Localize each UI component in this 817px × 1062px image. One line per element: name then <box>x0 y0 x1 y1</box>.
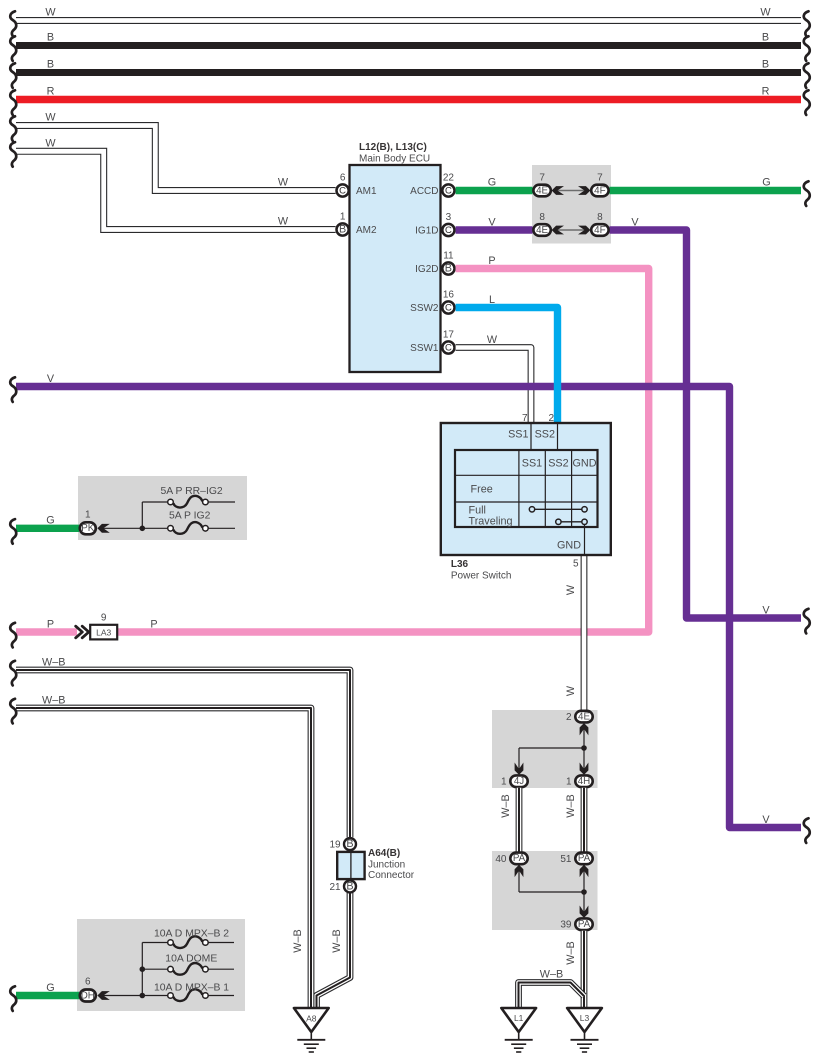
wire W SSW1 to power switch <box>456 334 531 423</box>
svg-text:Full: Full <box>469 504 486 516</box>
wire B top1 <box>16 32 801 46</box>
svg-text:V: V <box>47 373 55 385</box>
svg-text:PK: PK <box>81 523 95 534</box>
svg-text:Connector: Connector <box>368 870 415 881</box>
link down to 4H <box>583 748 585 774</box>
pin AM2 <box>337 212 378 237</box>
svg-text:R: R <box>762 86 770 98</box>
svg-text:SS2: SS2 <box>548 457 568 469</box>
svg-text:C: C <box>445 303 452 314</box>
svg-text:W: W <box>760 7 771 19</box>
continuation squiggle <box>10 116 16 141</box>
svg-text:W: W <box>278 177 289 189</box>
connector PA pin 51 <box>560 853 592 865</box>
svg-text:4J: 4J <box>514 776 524 787</box>
svg-text:GND: GND <box>573 457 597 469</box>
svg-text:A64(B): A64(B) <box>368 848 400 859</box>
connector shading box PA <box>492 851 598 930</box>
link below PA51 <box>583 865 585 892</box>
svg-text:W–B: W–B <box>42 695 65 707</box>
link below PA40 <box>518 865 520 892</box>
connector shading box 4E/4F <box>532 165 611 244</box>
connector PA pin 39 <box>560 918 592 930</box>
svg-text:LA3: LA3 <box>96 628 111 638</box>
svg-text:P: P <box>488 255 495 267</box>
connector 4E pin 8 violet row <box>533 212 550 236</box>
fuse block shading 10A <box>77 919 245 1011</box>
svg-text:1: 1 <box>85 510 91 521</box>
svg-text:G: G <box>46 982 54 994</box>
svg-text:8: 8 <box>597 212 603 223</box>
svg-text:B: B <box>762 59 769 71</box>
continuation squiggle <box>10 142 16 167</box>
svg-text:W: W <box>487 334 498 346</box>
svg-text:ACCD: ACCD <box>410 186 438 197</box>
continuation squiggle <box>804 181 810 206</box>
svg-text:G: G <box>762 177 770 189</box>
wire P left of LA3 <box>16 619 77 632</box>
arrow left to DH <box>97 991 109 1000</box>
svg-text:Traveling: Traveling <box>469 516 513 528</box>
svg-text:SS1: SS1 <box>508 429 528 441</box>
svg-text:7: 7 <box>597 173 603 184</box>
fuse link line 10A row3 <box>98 995 168 997</box>
continuation squiggle <box>10 36 16 61</box>
wire V 4F to right <box>610 217 802 619</box>
continuation squiggle <box>804 90 810 115</box>
junction dot <box>581 745 587 751</box>
ground L3 <box>567 1008 602 1052</box>
svg-text:PA: PA <box>578 853 591 864</box>
connector shading box 4E/4J/4H <box>492 710 598 788</box>
junction dot 5A <box>140 526 146 532</box>
continuation squiggle <box>10 661 16 686</box>
link down to PA39 <box>583 892 585 917</box>
pin SSW2 <box>410 290 454 315</box>
continuation squiggle <box>10 90 16 115</box>
svg-text:W: W <box>565 584 577 595</box>
svg-text:10A D MPX–B 1: 10A D MPX–B 1 <box>154 983 229 994</box>
junction link line <box>519 747 584 749</box>
svg-text:A8: A8 <box>306 1014 317 1024</box>
power switch L36 box <box>441 423 611 582</box>
switch contact SS2-GND <box>556 519 588 524</box>
svg-text:3: 3 <box>446 212 452 223</box>
svg-text:C: C <box>445 343 452 354</box>
branch line to top fuse <box>142 942 168 944</box>
junction dot 10A row2 <box>140 966 146 972</box>
double chevron <box>76 626 89 638</box>
svg-text:4H: 4H <box>578 776 591 787</box>
wire G ACCD to 4E <box>456 177 533 191</box>
continuation squiggle <box>10 63 16 88</box>
wire link 4E down to junction <box>583 724 585 748</box>
svg-text:40: 40 <box>495 854 507 865</box>
arrow up to PA51 <box>580 865 589 877</box>
svg-text:IG2D: IG2D <box>415 264 438 275</box>
pin IG1D <box>415 212 454 237</box>
pin AM1 <box>337 173 378 198</box>
connector LA3 pin 9 <box>90 613 117 640</box>
svg-text:22: 22 <box>443 173 455 184</box>
continuation squiggle <box>804 36 810 61</box>
svg-text:PA: PA <box>578 919 591 930</box>
continuation squiggle <box>804 11 810 36</box>
svg-text:B: B <box>346 880 353 892</box>
svg-text:GND: GND <box>557 540 581 552</box>
continuation squiggle <box>10 519 16 544</box>
svg-text:7: 7 <box>539 173 545 184</box>
svg-text:16: 16 <box>443 290 455 301</box>
continuation squiggle <box>10 11 16 36</box>
wire W-B PA39 to ground L3 <box>565 931 584 1008</box>
svg-text:W–B: W–B <box>331 929 343 952</box>
fuse block shading 5A <box>78 476 247 540</box>
branch line to upper fuse <box>142 501 168 503</box>
wire W-B below A64 to A8 <box>317 893 351 1008</box>
svg-text:AM2: AM2 <box>356 225 377 236</box>
svg-text:Junction: Junction <box>368 860 405 871</box>
svg-text:Main Body ECU: Main Body ECU <box>359 154 430 165</box>
svg-text:B: B <box>346 838 353 850</box>
svg-text:B: B <box>445 263 452 275</box>
svg-text:17: 17 <box>443 330 455 341</box>
svg-text:V: V <box>488 217 496 229</box>
svg-text:G: G <box>46 515 54 527</box>
svg-text:51: 51 <box>560 854 572 865</box>
svg-text:4F: 4F <box>594 185 605 196</box>
svg-text:L: L <box>489 294 495 306</box>
svg-text:21: 21 <box>329 882 341 893</box>
arrow down to PA39 <box>580 906 589 918</box>
wire L SSW2 to power switch <box>456 294 558 423</box>
svg-text:5A P RR–IG2: 5A P RR–IG2 <box>161 486 223 497</box>
pin IG2D <box>415 251 454 276</box>
svg-text:W–B: W–B <box>292 929 304 952</box>
wire W-B 4J to PA <box>500 788 519 852</box>
svg-text:P: P <box>47 619 54 631</box>
arrow down to 4H <box>580 763 589 775</box>
svg-text:8: 8 <box>539 212 545 223</box>
junction dot 10A row3 <box>140 993 146 999</box>
junction link line lower <box>519 891 584 893</box>
switch contact SS1-GND <box>529 507 587 512</box>
svg-text:6: 6 <box>85 977 91 988</box>
junction dot lower <box>581 889 587 895</box>
svg-text:W–B: W–B <box>565 794 577 817</box>
svg-text:AM1: AM1 <box>356 186 377 197</box>
wire R top <box>16 86 801 100</box>
svg-text:4E: 4E <box>578 711 590 722</box>
ground L1 <box>501 1008 536 1052</box>
svg-text:10A DOME: 10A DOME <box>165 954 217 965</box>
link down to 4J <box>518 748 520 774</box>
svg-text:4E: 4E <box>536 225 548 236</box>
wire P IG2D to LA3 <box>117 255 648 632</box>
svg-text:W–B: W–B <box>540 969 563 981</box>
svg-text:Power Switch: Power Switch <box>451 571 512 582</box>
svg-text:C: C <box>339 186 346 197</box>
svg-text:G: G <box>488 177 496 189</box>
wire W to AM2 <box>16 137 336 229</box>
continuation squiggle <box>10 623 16 648</box>
svg-text:W: W <box>45 137 56 149</box>
main body ECU box L12(B) L13(C) <box>350 142 441 372</box>
fuse 5A P IG2 <box>168 511 235 534</box>
svg-text:B: B <box>339 224 346 236</box>
connector 4H pin 1 <box>566 775 593 787</box>
connector 4E pin 2 <box>566 711 593 723</box>
junction connector A64(B) <box>329 838 414 893</box>
switch state table <box>455 450 598 528</box>
connector 4F pin 8 violet row <box>591 212 608 236</box>
svg-text:4E: 4E <box>536 185 548 196</box>
svg-text:V: V <box>762 814 770 826</box>
wire W-B 4H to PA <box>565 788 584 852</box>
svg-text:1: 1 <box>340 212 346 223</box>
svg-text:1: 1 <box>566 777 572 788</box>
wire G 4F to right <box>610 177 802 191</box>
svg-text:B: B <box>47 59 54 71</box>
wire W-B left 1 through A64 <box>16 657 350 838</box>
svg-text:11: 11 <box>443 251 454 262</box>
connector PK pin 1 <box>80 510 96 535</box>
wire W-B left 2 to A8 <box>16 695 311 1009</box>
svg-text:P: P <box>150 619 157 631</box>
fuse 10A DOME <box>165 954 234 975</box>
pin stub SS1 <box>530 423 532 450</box>
wire W power switch GND to 4E <box>565 555 584 711</box>
branch up 5A <box>141 502 143 528</box>
connector 4J pin 1 <box>501 775 528 787</box>
svg-text:L1: L1 <box>514 1013 524 1023</box>
arrows between 4E and 4F violet row <box>552 226 591 235</box>
continuation squiggle <box>10 986 16 1011</box>
wire W-B branch to ground L1 <box>519 969 585 1009</box>
fuse link line 5A row2 <box>98 527 168 529</box>
connector DH pin 6 <box>80 977 96 1002</box>
svg-text:L12(B), L13(C): L12(B), L13(C) <box>359 142 427 153</box>
branch vertical 10A <box>141 943 143 996</box>
svg-text:SSW1: SSW1 <box>410 343 439 354</box>
svg-text:W–B: W–B <box>565 941 577 964</box>
arrow up to PA40 <box>515 865 524 877</box>
svg-text:2: 2 <box>566 712 572 723</box>
pin stub SS2 <box>557 423 559 450</box>
svg-text:W: W <box>45 112 56 124</box>
wire V long horizontal <box>16 373 801 828</box>
wire W top <box>16 7 801 21</box>
svg-text:5: 5 <box>573 559 579 570</box>
svg-text:W–B: W–B <box>500 794 512 817</box>
svg-text:V: V <box>762 605 770 617</box>
fuse 10A D MPX-B 2 <box>154 928 234 948</box>
svg-text:L36: L36 <box>451 559 469 570</box>
svg-text:W: W <box>278 216 289 228</box>
svg-text:10A D MPX–B 2: 10A D MPX–B 2 <box>154 928 229 939</box>
svg-text:C: C <box>445 225 452 236</box>
svg-text:19: 19 <box>329 840 341 851</box>
svg-text:9: 9 <box>101 613 107 624</box>
svg-text:W: W <box>45 7 56 19</box>
svg-text:SS2: SS2 <box>535 429 555 441</box>
pin SSW1 <box>410 330 454 355</box>
svg-text:L3: L3 <box>580 1013 590 1023</box>
svg-text:V: V <box>631 217 639 229</box>
wire G to PK <box>16 515 79 529</box>
continuation squiggle <box>804 63 810 88</box>
svg-text:B: B <box>47 32 54 44</box>
arrow up to 4E <box>580 723 589 735</box>
svg-text:1: 1 <box>501 777 507 788</box>
wire W to AM1 <box>16 112 336 191</box>
pin ACCD <box>410 173 454 198</box>
svg-text:39: 39 <box>560 920 572 931</box>
svg-text:7: 7 <box>522 413 528 424</box>
svg-text:SS1: SS1 <box>522 457 542 469</box>
svg-text:W–B: W–B <box>42 657 65 669</box>
svg-text:R: R <box>47 86 55 98</box>
connector 4E pin 7 green row <box>533 173 550 197</box>
svg-text:2: 2 <box>548 413 554 424</box>
svg-text:Free: Free <box>471 483 493 495</box>
branch line to middle fuse <box>142 968 168 970</box>
wire G to DH <box>16 982 79 996</box>
svg-text:5A P IG2: 5A P IG2 <box>169 511 211 522</box>
arrow down to 4J <box>515 763 524 775</box>
arrow left to PK <box>97 524 109 533</box>
svg-text:SSW2: SSW2 <box>410 303 439 314</box>
ground A8 <box>294 1008 329 1052</box>
svg-text:PA: PA <box>513 853 526 864</box>
continuation squiggle <box>804 818 810 843</box>
continuation squiggle <box>10 699 16 724</box>
continuation squiggle <box>804 609 810 634</box>
fuse 10A D MPX-B 1 <box>154 983 234 1002</box>
wire B top2 <box>16 59 801 73</box>
connector 4F pin 7 green row <box>591 173 608 197</box>
svg-text:C: C <box>445 186 452 197</box>
svg-text:IG1D: IG1D <box>415 226 438 237</box>
svg-text:DH: DH <box>81 990 95 1001</box>
svg-text:6: 6 <box>340 173 346 184</box>
wire V IG1D to 4E <box>456 217 533 231</box>
svg-text:B: B <box>762 32 769 44</box>
arrows between 4E and 4F green row <box>552 186 591 195</box>
continuation squiggle <box>10 377 16 402</box>
connector PA pin 40 <box>495 853 527 865</box>
GND stub and label <box>557 525 585 570</box>
svg-text:W: W <box>565 685 577 696</box>
fuse 5A P RR-IG2 <box>161 486 236 508</box>
svg-text:4F: 4F <box>594 225 605 236</box>
